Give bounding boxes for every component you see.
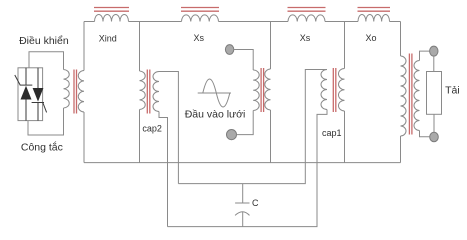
wire TL primary bottom to bottom rail [400, 136, 402, 163]
source sine symbol [198, 79, 231, 107]
thyristor Q2 anode-cathode branch [32, 68, 44, 121]
wire T2 secondary top to top rail [270, 22, 272, 70]
top rail segment 3 [219, 21, 289, 23]
thyristor Q1 gate [15, 75, 20, 85]
terminal node grid top [225, 45, 233, 55]
svg-text:Xs: Xs [300, 33, 311, 43]
wire T3 secondary bottom to bottom rail [344, 111, 346, 163]
transformer T2 primary winding [253, 70, 259, 110]
transformer T2 core [261, 68, 264, 112]
transformer Tcap2 core [147, 70, 150, 114]
top rail segment 2 [129, 21, 182, 23]
inductor Xind core lines [94, 8, 129, 12]
terminal node grid bottom [227, 130, 237, 140]
wire T2 secondary bottom to bottom rail [270, 110, 272, 163]
wire Tcap2 secondary bottom to outer loop [159, 112, 168, 227]
top rail segment 1 [84, 21, 95, 23]
svg-text:cap1: cap1 [322, 128, 342, 138]
thyristor Q2 gate [43, 103, 47, 113]
transformer T1 core [74, 70, 77, 114]
wire top rail right end to TL primary [400, 22, 402, 57]
svg-text:C: C [252, 198, 259, 208]
wire Tcap2 secondary top to inner loop [159, 72, 178, 184]
terminal node load top [430, 46, 438, 56]
transformer Tcap2 secondary winding [153, 72, 159, 112]
wire TL secondary top to load top terminal [420, 51, 430, 60]
inductor Xs2 core lines [288, 8, 326, 12]
resistor Tai [427, 72, 442, 115]
wire T3 secondary top to top rail [344, 22, 346, 69]
transformer T1 secondary winding [78, 71, 84, 112]
transformer T1 primary winding [64, 70, 70, 109]
top rail segment 4 [325, 21, 358, 23]
transformer T3 core [333, 68, 336, 112]
inductor Xs2 coil [288, 15, 325, 22]
top rail segment 5 [390, 21, 401, 23]
transformer T3 primary winding [321, 70, 327, 110]
transformer TL primary winding [401, 56, 407, 136]
inductor Xind coil [95, 15, 129, 22]
wire inner loop bottom [178, 70, 327, 184]
capacitor C bottom plate [235, 212, 249, 216]
capacitor C top lead [242, 184, 244, 203]
svg-text:Xind: Xind [99, 33, 117, 43]
svg-text:Đầu vào lưới: Đầu vào lưới [185, 109, 246, 121]
capacitor C top plate [235, 202, 249, 204]
wire T1 secondary bottom to bottom rail [83, 112, 85, 163]
thyristor Q1 anode-cathode branch [20, 68, 33, 121]
transformer TL secondary winding [414, 61, 420, 131]
switch box S1 [18, 68, 43, 121]
inductor Xo core lines [358, 8, 391, 12]
wire grid top terminal to T2 primary top [234, 50, 253, 71]
svg-text:cap2: cap2 [142, 124, 162, 134]
svg-text:Công tắc: Công tắc [21, 141, 63, 154]
wire TL secondary bottom to load bottom terminal [420, 131, 430, 137]
wire grid bottom terminal to T2 primary bottom [237, 111, 254, 135]
wire switch box top to T1 [29, 52, 64, 70]
transformer T3 secondary winding [339, 69, 345, 111]
wire resistor bottom to load bottom terminal [433, 114, 435, 132]
bottom rail [84, 162, 401, 164]
wire switch box bottom to T1 [28, 108, 64, 135]
inductor Xo coil [358, 14, 390, 21]
wire T1 secondary top to top rail [83, 22, 85, 71]
inductor Xs1 coil [182, 15, 219, 22]
inductor Xs1 core lines [181, 8, 219, 12]
terminal node load bottom [430, 132, 439, 142]
transformer Tcap2 primary winding [140, 71, 146, 110]
transformer T2 secondary winding [265, 69, 271, 110]
svg-text:Tải: Tải [445, 85, 460, 97]
transformer TL core [409, 54, 412, 135]
wire load top terminal to resistor [433, 56, 435, 71]
svg-text:Xs: Xs [193, 33, 204, 43]
capacitor C bottom lead [242, 212, 244, 227]
wire Tcap2 primary bottom to bottom rail [139, 110, 141, 163]
wire outer loop bottom [168, 110, 328, 227]
svg-text:Điều khiển: Điều khiển [19, 35, 69, 47]
wire top rail to Tcap2 primary [139, 22, 141, 72]
svg-text:Xo: Xo [365, 33, 376, 43]
